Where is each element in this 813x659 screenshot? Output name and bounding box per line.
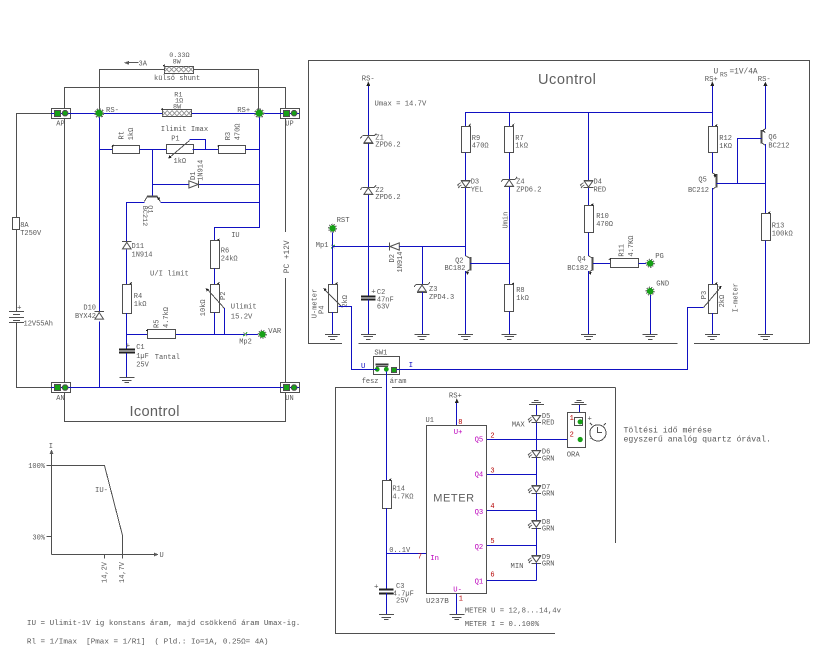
wire D1 row (153, 184, 260, 186)
text METER I (465, 621, 540, 629)
svg-text:U: U (160, 552, 164, 560)
svg-text:R12: R12 (719, 135, 732, 143)
ground P4 (325, 335, 340, 340)
text U/I limit (150, 270, 189, 278)
svg-text:5: 5 (490, 538, 494, 546)
wire Q4 base to R11 (593, 263, 610, 265)
svg-text:1µF: 1µF (136, 353, 149, 361)
svg-text:GND: GND (656, 280, 669, 288)
node RS- arrow right (758, 76, 771, 129)
svg-text:3A: 3A (139, 61, 148, 69)
svg-text:AP: AP (56, 121, 64, 129)
resistor R12 1K (709, 124, 732, 173)
wire AN-UN ground bus (70, 387, 280, 389)
svg-text:1N914: 1N914 (397, 251, 405, 272)
wire main bus AP-UP y113 (70, 113, 280, 115)
svg-text:24kΩ: 24kΩ (221, 255, 238, 263)
svg-text:Q2: Q2 (455, 257, 463, 265)
svg-text:GRN: GRN (542, 455, 555, 463)
svg-text:P2: P2 (220, 292, 228, 300)
svg-text:+: + (371, 288, 376, 296)
pot P2 10k Ulimit (200, 282, 257, 322)
svg-text:8: 8 (458, 419, 462, 427)
svg-text:METER U = 12,8...14,4v: METER U = 12,8...14,4v (465, 607, 562, 615)
wire Q2 base to Umin column (470, 263, 509, 265)
svg-text:D3: D3 (471, 179, 479, 187)
transistor Q5 BC212 (688, 173, 717, 195)
graph 30% tick (32, 534, 51, 542)
ground Z3 (415, 335, 430, 340)
graph x ticks and labels (102, 555, 127, 584)
wire P3 bottom to ground (712, 313, 714, 334)
svg-text:D11: D11 (132, 243, 145, 251)
svg-text:R14: R14 (392, 486, 405, 494)
svg-text:1kΩ: 1kΩ (134, 301, 147, 309)
svg-text:Q2: Q2 (475, 544, 484, 552)
resistor R3 470 (217, 123, 259, 153)
capacitor C3 4.7uF (374, 583, 414, 614)
svg-text:C1: C1 (136, 344, 144, 352)
svg-text:Umin: Umin (503, 212, 511, 229)
svg-text:VAR: VAR (268, 328, 282, 336)
wire Mp1 row to D2 (333, 246, 390, 248)
led D7 GRN (528, 484, 555, 521)
IC U1 U237B box (426, 417, 487, 606)
wire RS+ rail down to IU corner (215, 118, 260, 241)
U1 pin 4 Q3 (475, 503, 537, 517)
svg-text:1kΩ: 1kΩ (174, 158, 187, 166)
svg-text:1: 1 (459, 595, 463, 603)
pot P4 U-meter 2k (312, 282, 350, 318)
wire Q1 base drop (152, 150, 154, 197)
svg-text:BC212: BC212 (140, 206, 148, 226)
svg-text:2: 2 (570, 431, 574, 439)
wire P3 wiper to SW1 I terminal (400, 308, 704, 370)
svg-text:1kΩ: 1kΩ (128, 128, 136, 141)
pad AP (51, 109, 71, 129)
svg-text:RS+: RS+ (705, 76, 718, 84)
wire Umin column (503, 187, 511, 285)
svg-text:R6: R6 (221, 248, 229, 256)
svg-text:7: 7 (418, 553, 422, 561)
wire to U1 pin7 (386, 547, 426, 555)
pad AN (51, 383, 71, 403)
ground R13 (758, 335, 773, 340)
svg-text:D2: D2 (389, 254, 397, 262)
svg-text:0..1V: 0..1V (389, 547, 411, 555)
svg-text:R8: R8 (516, 287, 524, 295)
svg-text:12V55Ah: 12V55Ah (24, 320, 53, 328)
graph 100% tick (28, 463, 51, 471)
resistor shunt 0.33ohm 8W (154, 52, 200, 83)
wire D2 to Q2 collector column (399, 246, 465, 248)
svg-text:470Ω: 470Ω (472, 143, 489, 151)
clock icon (590, 423, 606, 441)
wire P4 bottom to ground (332, 312, 334, 334)
text note line 2 (27, 638, 269, 646)
label Ucontrol (538, 72, 596, 88)
svg-text:30%: 30% (32, 534, 45, 542)
svg-text:ZPD6.2: ZPD6.2 (375, 194, 400, 202)
wire gray y87 rail AP to UP (65, 88, 286, 109)
svg-text:1: 1 (570, 415, 574, 423)
svg-text:8W: 8W (173, 58, 182, 66)
svg-text:1kΩ: 1kΩ (516, 295, 529, 303)
battery 12V55Ah (9, 304, 53, 328)
led D5 RED MAX (512, 413, 555, 450)
node RS- arrow (362, 76, 375, 136)
diode D2 1N914 (389, 243, 405, 273)
label fesz (362, 378, 379, 386)
zener Z3 ZPD4.3 (414, 282, 454, 334)
transistor Q6 BC212 (761, 129, 789, 151)
zener Z2 ZPD6.2 (360, 185, 400, 296)
ground U1 pin1 (449, 615, 464, 620)
svg-text:In: In (430, 555, 439, 563)
svg-text:UP: UP (285, 121, 293, 129)
pot P1 1k (161, 126, 208, 166)
svg-text:U: U (361, 363, 365, 371)
text Umax (375, 101, 427, 109)
capacitor C2 47nF (361, 288, 394, 334)
svg-text:ORA: ORA (567, 451, 581, 459)
wire Z3 branch (422, 247, 424, 285)
svg-text:BC212: BC212 (688, 187, 709, 195)
svg-text:8A: 8A (20, 222, 29, 230)
pot P3 I-meter 2k (701, 282, 740, 314)
svg-text:10kΩ: 10kΩ (200, 299, 208, 316)
svg-text:U/I limit: U/I limit (150, 270, 189, 278)
capacitor C1 1uF tantal (119, 342, 180, 377)
svg-text:8W: 8W (173, 104, 182, 112)
svg-text:470Ω: 470Ω (596, 221, 613, 229)
svg-text:áram: áram (390, 378, 407, 386)
text METER U (465, 607, 562, 615)
svg-text:RS+: RS+ (237, 107, 250, 115)
svg-text:RS-: RS- (106, 107, 119, 115)
testpoint PG (646, 253, 664, 267)
graph U axis (52, 552, 164, 560)
U1 pin 3 Q4 (475, 467, 537, 479)
svg-text:Icontrol: Icontrol (130, 404, 180, 420)
resistor R9 470 (462, 124, 489, 181)
wire Ucontrol top bus y112.5 (466, 113, 713, 127)
svg-text:100%: 100% (28, 463, 46, 471)
zener Z4 ZPD6.2 (501, 177, 541, 195)
U1 pin 6 Q1 (475, 572, 537, 587)
diode D1 1N914 (189, 160, 206, 188)
svg-text:U237B: U237B (426, 598, 449, 606)
svg-text:P4: P4 (319, 306, 327, 314)
svg-text:MIN: MIN (511, 563, 524, 571)
svg-text:RS: RS (720, 71, 728, 78)
svg-text:Mp2: Mp2 (239, 338, 252, 346)
wire battery left column (external) (17, 114, 52, 388)
svg-text:1KΩ: 1KΩ (719, 143, 732, 151)
svg-text:4: 4 (490, 503, 494, 511)
svg-text:RS+: RS+ (449, 393, 462, 401)
svg-text:GRN: GRN (542, 561, 555, 569)
wire Q2 emitter to ground (465, 271, 467, 334)
wire gray shunt loop (100, 70, 259, 110)
text URS label (714, 68, 758, 78)
svg-text:R7: R7 (515, 135, 523, 143)
svg-text:Q5: Q5 (698, 177, 706, 185)
resistor R4 1k (123, 282, 147, 349)
U1 pin 2 Q5 (475, 432, 578, 444)
resistor R13 100k (762, 211, 793, 334)
resistor R1 1ohm 8W (161, 91, 192, 116)
svg-text:4.7KΩ: 4.7KΩ (628, 236, 636, 257)
pad UP (280, 109, 300, 129)
svg-text:Töltési idő mérése: Töltési idő mérése (624, 426, 713, 436)
led D9 GRN MIN (511, 554, 555, 581)
pad UN (280, 383, 300, 403)
svg-text:IU-: IU- (95, 487, 108, 495)
U1 pin 5 Q2 (475, 538, 537, 552)
svg-text:R3: R3 (225, 132, 233, 140)
svg-text:1N914: 1N914 (132, 251, 153, 259)
svg-text:Z4: Z4 (516, 179, 524, 187)
svg-text:BYX42: BYX42 (75, 313, 96, 321)
svg-text:PC +12V: PC +12V (284, 240, 292, 273)
svg-text:Ulimit: Ulimit (231, 303, 257, 311)
svg-text:470Ω: 470Ω (234, 123, 242, 140)
svg-text:T250V: T250V (20, 230, 42, 238)
resistor R8 1k (505, 282, 529, 334)
wire SW1 common down to R14 (386, 374, 388, 481)
svg-text:2kΩ: 2kΩ (342, 295, 350, 308)
svg-text:+: + (374, 583, 379, 591)
node RS+ meter (449, 393, 462, 426)
ground C2 (361, 335, 376, 340)
U1 pin 7 In (418, 553, 439, 563)
svg-text:I: I (409, 362, 413, 370)
resistor Rt 1k (99, 128, 139, 154)
svg-text:külső shunt: külső shunt (154, 75, 200, 83)
svg-text:GRN: GRN (542, 526, 555, 534)
svg-text:R5: R5 (153, 320, 161, 328)
svg-text:METER I = 0..100%: METER I = 0..100% (465, 621, 540, 629)
svg-text:D4: D4 (594, 179, 602, 187)
U1 pin 8 U+ (454, 419, 463, 437)
svg-text:U1: U1 (426, 417, 434, 425)
ground C3 (379, 615, 394, 620)
svg-text:I-meter: I-meter (732, 283, 740, 312)
svg-text:RST: RST (337, 217, 351, 225)
resistor R11 4.7K (609, 236, 647, 268)
transistor Q4 BC182 (567, 256, 593, 275)
transistor Q1 BC212 (140, 197, 161, 227)
testpoint RST (329, 217, 351, 246)
svg-text:P3: P3 (701, 291, 709, 299)
label I switch (409, 362, 413, 370)
resistor R5 4.7k (146, 307, 176, 339)
node RS+ arrow right (705, 76, 718, 113)
transistor Q2 BC182 (444, 256, 470, 275)
wire P1 wiper to right terminal (190, 140, 219, 150)
svg-text:U-: U- (453, 586, 462, 594)
wire P2 bottom and wiper to R5 row (215, 308, 225, 334)
led D4 RED (580, 179, 606, 206)
svg-text:ZPD6.2: ZPD6.2 (516, 186, 541, 194)
svg-text:Q1: Q1 (475, 578, 484, 586)
svg-text:4.7KΩ: 4.7KΩ (392, 493, 413, 501)
ground Q4 (581, 335, 596, 340)
label METER (433, 493, 475, 505)
svg-text:=1V/4A: =1V/4A (730, 68, 758, 76)
svg-text:R4: R4 (134, 293, 142, 301)
U1 pin 1 U- (453, 586, 463, 603)
resistor R14 4.7K (383, 478, 414, 589)
svg-text:Tantal: Tantal (155, 354, 180, 362)
wire Q1 emitter row (160, 202, 259, 204)
switch SW1 (374, 350, 400, 375)
svg-text:GRN: GRN (542, 491, 555, 499)
svg-text:6: 6 (490, 572, 494, 580)
Icontrol box left edge (65, 118, 286, 421)
svg-text:63V: 63V (377, 303, 390, 311)
svg-text:Umax = 14.7V: Umax = 14.7V (375, 101, 427, 109)
text clock note (624, 426, 771, 445)
wire U1 pin1 to ground (456, 594, 458, 614)
svg-text:R13: R13 (772, 223, 785, 231)
svg-text:BC212: BC212 (768, 143, 789, 151)
svg-text:YEL: YEL (471, 186, 484, 194)
wire P4 wiper to SW1 (339, 307, 374, 370)
led D3 YEL (457, 179, 483, 256)
testpoint VAR Mp2 (239, 328, 282, 346)
wire Q6 collector down to R13 (765, 144, 767, 213)
led D8 GRN (528, 519, 555, 556)
svg-text:4.7kΩ: 4.7kΩ (163, 307, 171, 328)
resistor R7 1k (505, 113, 528, 180)
Ucontrol box (308, 61, 810, 344)
svg-text:BC182: BC182 (567, 265, 588, 273)
Icontrol box right edge PC +12V (284, 118, 292, 382)
svg-text:ZPD4.3: ZPD4.3 (429, 294, 454, 302)
ground GND pad (643, 335, 658, 340)
svg-text:Z3: Z3 (429, 286, 437, 294)
svg-text:Ucontrol: Ucontrol (538, 72, 596, 88)
arrow 3A (124, 61, 148, 69)
testpoint GND (646, 280, 669, 334)
svg-text:Ilimit Imax: Ilimit Imax (161, 126, 208, 134)
wire Q5 collector to P3 (712, 188, 714, 284)
svg-text:100kΩ: 100kΩ (772, 231, 793, 239)
svg-text:R9: R9 (472, 135, 480, 143)
svg-text:R10: R10 (596, 213, 609, 221)
wire D4 branch (588, 113, 590, 181)
diode D11 1N914 (122, 242, 153, 285)
resistor R6 24k (211, 232, 240, 284)
svg-text:D10: D10 (83, 305, 96, 313)
svg-text:U+: U+ (454, 429, 463, 437)
svg-text:Mp1: Mp1 (316, 242, 329, 250)
svg-text:Rl = 1/Imax [Pmax = 1/R1] (: Rl = 1/Imax [Pmax = 1/R1] ( Pld.: Io=1A,… (27, 638, 269, 646)
wire RS- down to AN bus (99, 118, 101, 388)
zener Z1 ZPD6.2 (360, 134, 400, 188)
ground R8 (502, 335, 517, 340)
svg-text:14,7V: 14,7V (119, 561, 127, 583)
svg-text:BC182: BC182 (444, 265, 465, 273)
svg-text:METER: METER (433, 493, 475, 505)
ground Q2 (458, 335, 473, 340)
led D6 GRN (528, 448, 555, 485)
label U switch (361, 363, 365, 371)
label aram (390, 378, 407, 386)
svg-text:MAX: MAX (512, 421, 526, 429)
svg-text:15.2V: 15.2V (231, 314, 253, 322)
fuse F1 8A T250V (13, 218, 43, 239)
svg-text:+: + (17, 304, 22, 312)
svg-text:egyszerű analóg quartz órával.: egyszerű analóg quartz órával. (624, 435, 771, 445)
label Icontrol (130, 404, 180, 420)
svg-text:I: I (49, 443, 53, 451)
text note line 1 (27, 620, 300, 628)
svg-text:2kΩ: 2kΩ (719, 295, 727, 308)
svg-text:1kΩ: 1kΩ (515, 143, 528, 151)
resistor R10 470 (585, 203, 614, 256)
diode D10 BYX42 (75, 305, 104, 322)
wire RST down to P4 (332, 247, 334, 285)
wire R5 row (127, 334, 258, 336)
node Mp1 (316, 242, 335, 250)
svg-text:AN: AN (56, 395, 64, 403)
svg-text:RED: RED (542, 419, 555, 427)
svg-text:R11: R11 (619, 244, 627, 257)
svg-text:Q4: Q4 (577, 256, 585, 264)
svg-text:P1: P1 (171, 136, 179, 144)
ground C1 (119, 378, 134, 383)
svg-text:Q4: Q4 (475, 471, 484, 479)
graph I axis (49, 443, 54, 555)
svg-text:Q6: Q6 (768, 134, 776, 142)
graph IU curve (52, 466, 123, 555)
wire Q4 emitter to ground (588, 271, 590, 334)
svg-text:UN: UN (285, 395, 293, 403)
svg-text:Rt: Rt (118, 131, 126, 139)
svg-text:RED: RED (594, 186, 607, 194)
svg-text:Q3: Q3 (475, 509, 484, 517)
meter box (335, 388, 616, 634)
junction RS- (95, 107, 119, 117)
svg-text:14,2V: 14,2V (102, 561, 110, 583)
svg-text:IU: IU (231, 232, 239, 240)
junction RS+ (237, 107, 263, 117)
wire Rt to P1 with junction (140, 149, 167, 151)
ground P3 (705, 335, 720, 340)
svg-text:1N914: 1N914 (197, 160, 205, 181)
wire Q1 collector to D11 column (127, 203, 145, 242)
svg-text:PG: PG (655, 253, 664, 261)
svg-text:IU = Ulimit-1V ig konstans ára: IU = Ulimit-1V ig konstans áram, majd cs… (27, 620, 300, 628)
ground above ORA (572, 401, 587, 419)
svg-text:25V: 25V (396, 597, 409, 605)
svg-text:25V: 25V (136, 362, 149, 370)
connector ORA (567, 413, 593, 460)
svg-text:Q5: Q5 (475, 436, 484, 444)
svg-text:RS-: RS- (758, 76, 771, 84)
svg-text:fesz: fesz (362, 378, 379, 386)
wire Q6 base loop to Q5 base row (717, 139, 766, 184)
svg-text:+: + (588, 415, 592, 423)
ground above D5 (529, 401, 544, 416)
svg-text:ZPD6.2: ZPD6.2 (375, 142, 400, 150)
